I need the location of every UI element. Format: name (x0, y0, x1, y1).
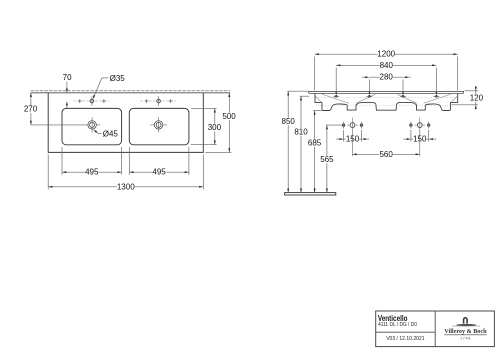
V&B logo underline (444, 334, 487, 336)
plan dim 270 (vertical) (30, 93, 32, 125)
title block divider vertical (434, 311, 436, 347)
svg-text:300: 300 (208, 123, 222, 132)
svg-text:150: 150 (346, 135, 360, 144)
plan: drain right (D45) (154, 121, 162, 129)
front view: corner slope lines (315, 96, 321, 102)
plan: tap hole right (D35) (157, 99, 161, 103)
svg-text:840: 840 (380, 61, 394, 70)
front view: floor bar (285, 193, 336, 195)
svg-text:Ø35: Ø35 (110, 74, 126, 83)
title block outer frame (376, 311, 495, 347)
svg-text:1300: 1300 (117, 182, 135, 191)
svg-text:495: 495 (85, 168, 99, 177)
plan dim 495 left (61, 147, 63, 175)
plan: optional hole crosses right (146, 99, 148, 103)
front dim 120 (465, 90, 478, 92)
plan dim 300 (191, 107, 217, 109)
svg-text:1748: 1748 (460, 337, 471, 341)
front dim 280 (368, 79, 370, 92)
front dim 840 (335, 68, 337, 93)
svg-text:560: 560 (379, 150, 393, 159)
svg-text:Ø45: Ø45 (103, 130, 119, 139)
title block divider horizontal (376, 331, 436, 333)
plan dim 500 (205, 151, 231, 153)
plan view: counter outline 1300x500 (48, 93, 203, 153)
front: fixing hole group left (350, 123, 355, 128)
plan label D45 with leader (99, 133, 102, 135)
svg-text:V03 / 12.10.2021: V03 / 12.10.2021 (386, 336, 424, 342)
front: fixing hole group right (417, 123, 422, 128)
plan view: back edge strip top line (31, 90, 231, 92)
front dim 150 left (343, 130, 345, 142)
svg-text:4111 DL / DG / D0: 4111 DL / DG / D0 (378, 322, 417, 328)
front view: top slab lower edge (309, 92, 463, 94)
svg-text:850: 850 (282, 117, 296, 126)
plan: optional hole crosses left (79, 99, 81, 103)
front dim 850 (287, 90, 308, 92)
V&B logo arch icon (463, 317, 468, 324)
front view: hidden line back ledge bottom (316, 97, 457, 99)
front: tap hole symbols on back ledge (335, 95, 338, 98)
plan: tap hole left (D35) (90, 99, 94, 103)
svg-text:120: 120 (470, 94, 484, 103)
plan view: counter top edge line (with extensions) (31, 92, 231, 94)
front view: body underside profile (315, 93, 458, 110)
front dim 560 (352, 128, 354, 156)
front dim 565 (326, 124, 342, 126)
svg-text:500: 500 (222, 112, 236, 121)
svg-text:1200: 1200 (377, 50, 395, 59)
front view: top slab top edge (309, 91, 464, 93)
plan dim 1300 (47, 155, 49, 190)
plan: tap hole centerline left (74, 100, 110, 102)
front dim 810 (300, 95, 310, 97)
svg-text:270: 270 (24, 105, 38, 114)
front view: interior slope lines left bowl (322, 94, 349, 103)
V&B logo base plinth (456, 324, 476, 326)
svg-text:495: 495 (152, 168, 166, 177)
svg-text:280: 280 (380, 73, 394, 82)
front dim 150 right (410, 130, 412, 142)
plan dim 495 right (128, 147, 130, 175)
plan: centerline from 270 dim to left drain (31, 124, 88, 126)
front view: hidden line body rear bottom edge (316, 104, 450, 106)
front dim 1200 (314, 57, 316, 91)
plan: tap hole centerline right (140, 100, 176, 102)
plan view: left basin outline (62, 108, 122, 144)
svg-text:810: 810 (294, 127, 308, 136)
svg-text:565: 565 (320, 155, 334, 164)
plan: drain left (D45) (88, 121, 96, 129)
front dim 685 (313, 110, 321, 112)
svg-text:70: 70 (63, 73, 72, 82)
plan view: right basin outline (129, 108, 189, 144)
front view: slab end caps (308, 91, 310, 93)
front view: interior slope lines right bowl (397, 94, 417, 103)
svg-text:685: 685 (308, 139, 322, 148)
svg-text:Villeroy & Boch: Villeroy & Boch (444, 328, 487, 335)
